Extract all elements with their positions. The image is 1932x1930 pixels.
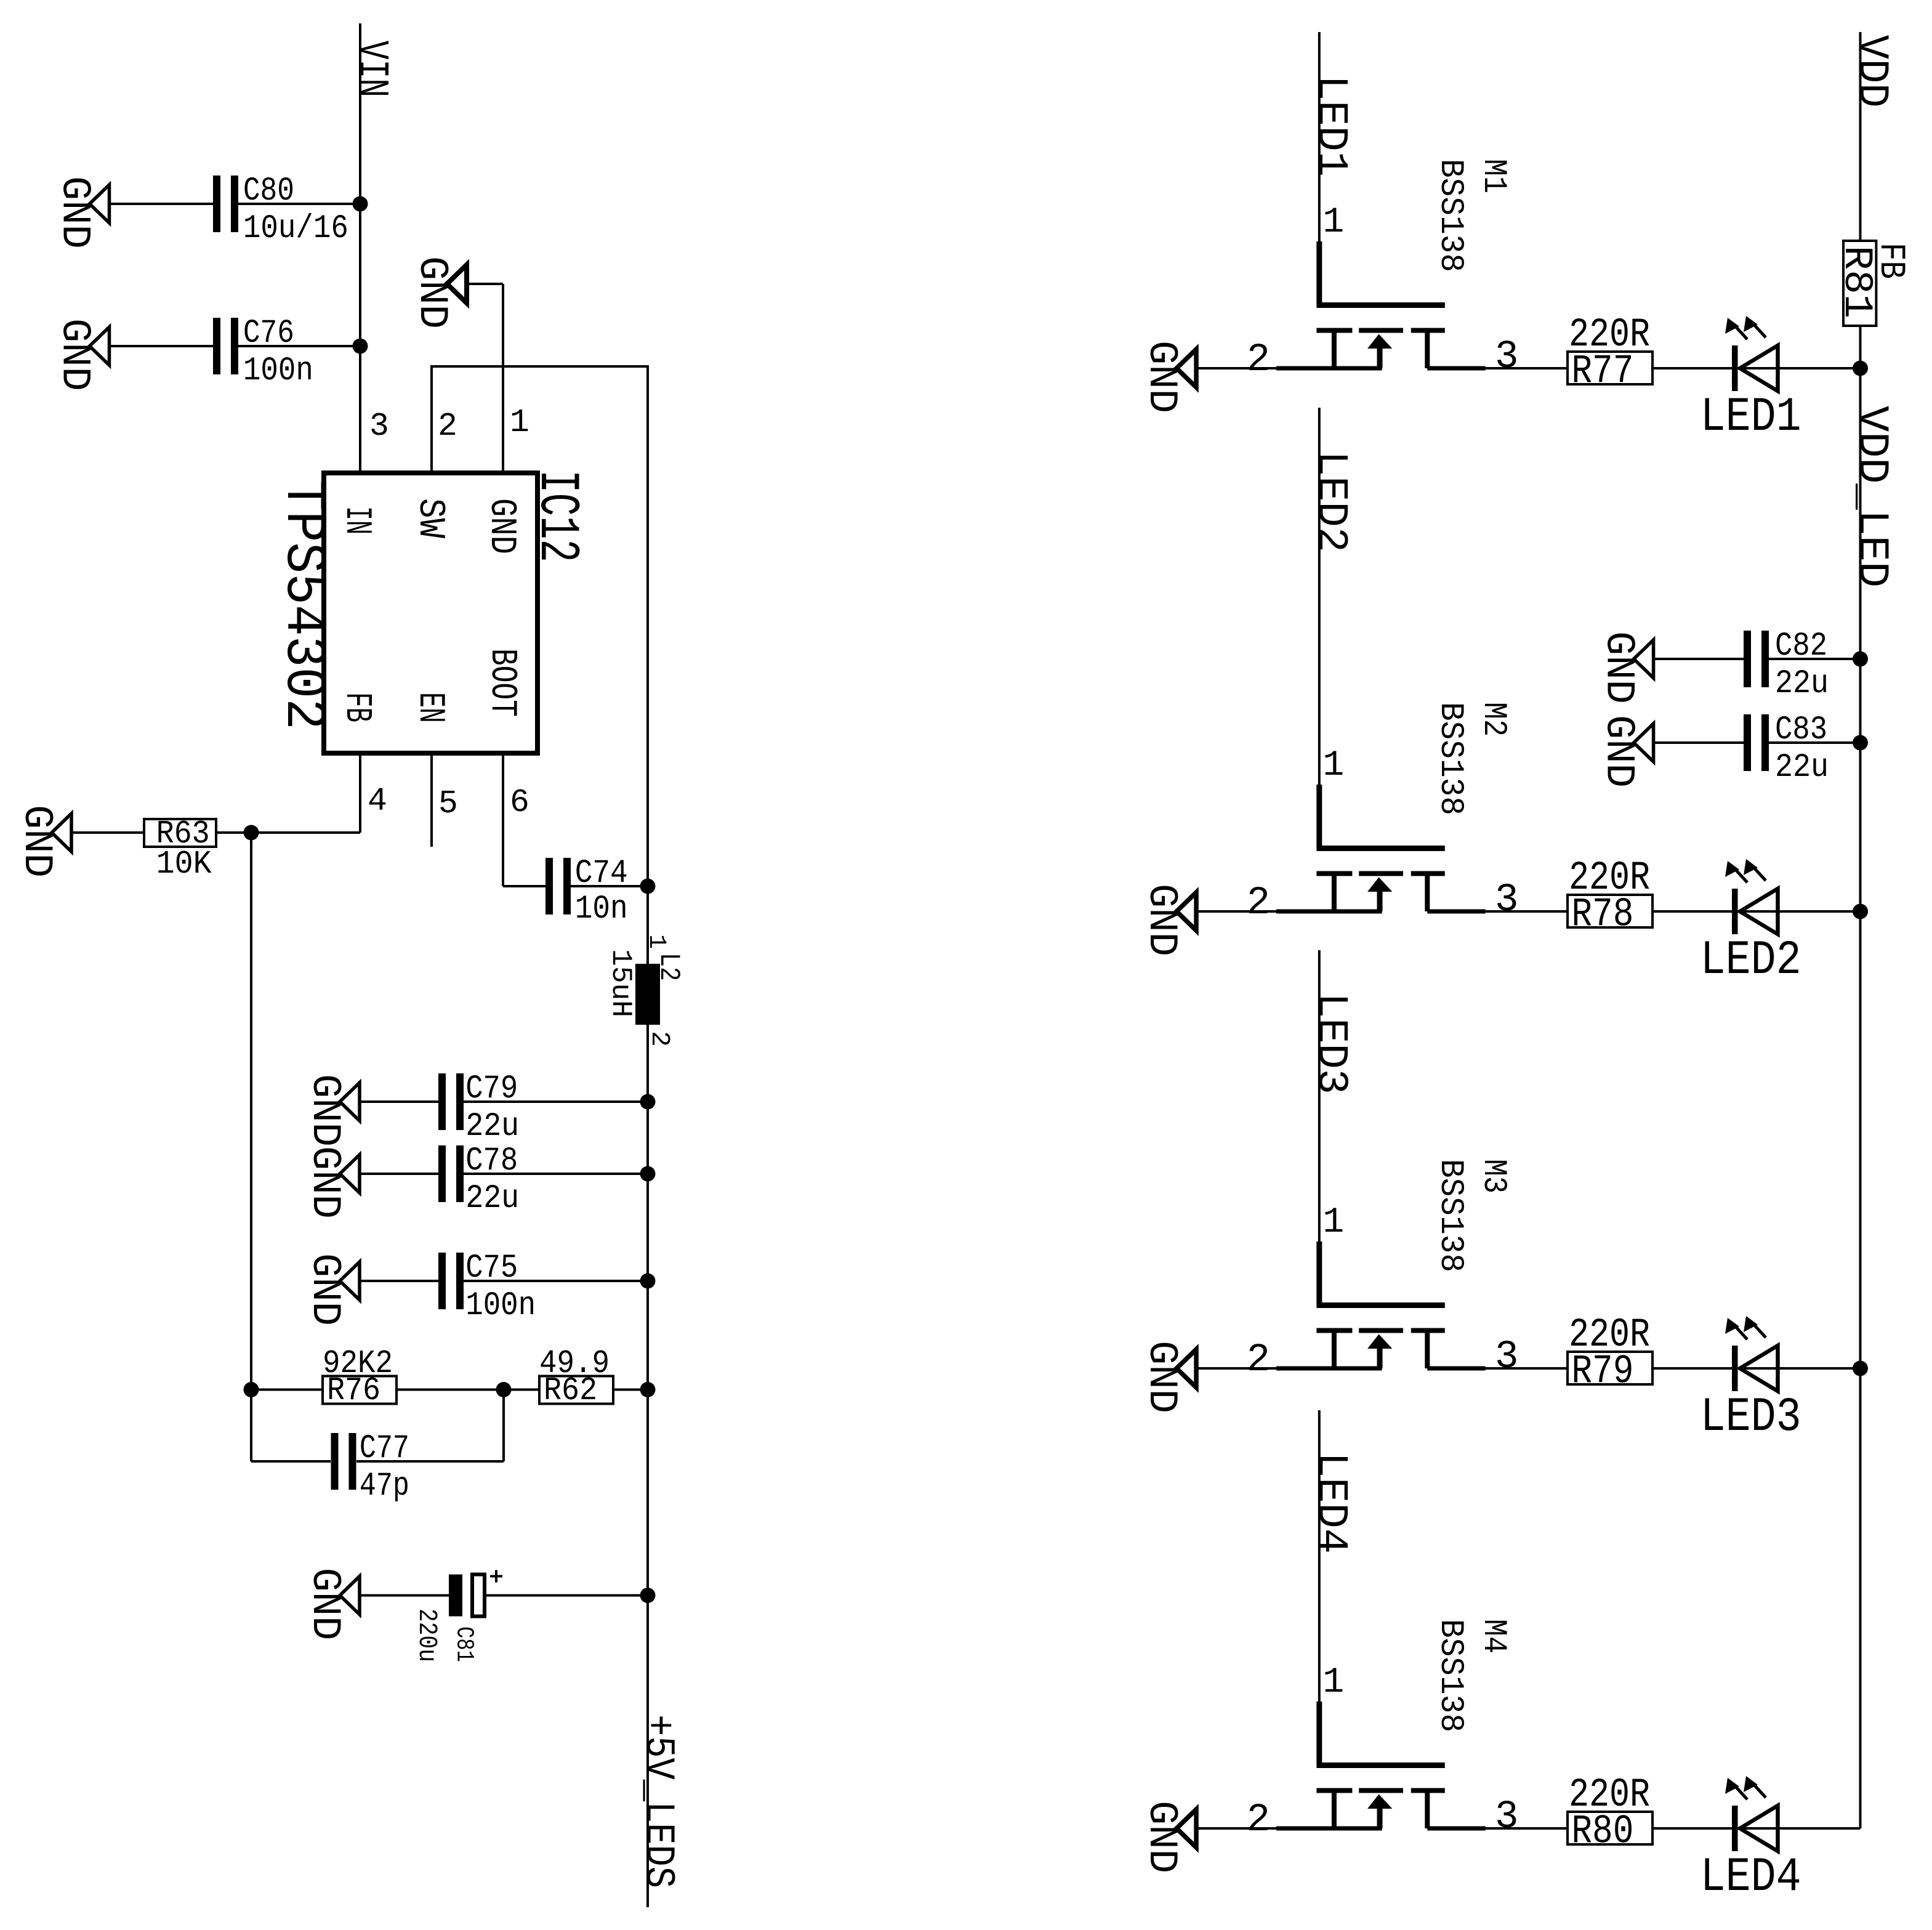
svg-text:VDD: VDD — [1847, 35, 1896, 108]
svg-text:GND: GND — [14, 805, 60, 878]
svg-text:GND: GND — [1138, 1801, 1185, 1873]
svg-text:LED2: LED2 — [1306, 451, 1354, 552]
svg-text:GND: GND — [1138, 341, 1185, 413]
wire SW node — [430, 365, 433, 473]
wire pin6 BOOT stub — [502, 753, 504, 886]
svg-text:GND: GND — [302, 1146, 348, 1219]
junction — [1853, 1361, 1868, 1376]
pin 5 EN — [409, 692, 458, 822]
svg-text:2: 2 — [1247, 338, 1270, 382]
resistor R76 92K2 — [323, 1345, 396, 1409]
wire — [1654, 741, 1744, 744]
capacitor C78 22u — [438, 1142, 519, 1217]
capacitor C80 — [213, 172, 348, 248]
svg-text:15uH: 15uH — [605, 949, 637, 1017]
svg-text:GND: GND — [1138, 884, 1185, 956]
svg-text:M2: M2 — [1475, 702, 1512, 737]
svg-text:BSS138: BSS138 — [1431, 1619, 1469, 1732]
svg-text:GND: GND — [480, 498, 522, 554]
inductor L2 15uH — [605, 934, 685, 1047]
pin 6 BOOT — [481, 648, 529, 821]
wire — [216, 831, 360, 834]
wire — [1196, 1367, 1276, 1370]
transistor M4 BSS138 — [1247, 1619, 1519, 1843]
wire — [464, 1173, 648, 1175]
svg-text:3: 3 — [1495, 1335, 1518, 1379]
ground C75 GND — [302, 1253, 360, 1326]
svg-text:1: 1 — [510, 404, 529, 441]
resistor R63 10K — [144, 815, 216, 882]
wire — [360, 1100, 438, 1103]
svg-text:LED1: LED1 — [1701, 390, 1801, 445]
wire — [360, 1594, 449, 1597]
wire +5V rail — [646, 1025, 649, 1907]
svg-text:C81: C81 — [450, 1626, 478, 1662]
svg-text:5: 5 — [438, 785, 458, 822]
svg-text:2: 2 — [1247, 881, 1270, 926]
ground C79 GND — [302, 1074, 360, 1147]
LED LED3 — [1701, 1316, 1801, 1445]
capacitor C83 22u — [1744, 711, 1829, 786]
svg-text:+5V_LEDS: +5V_LEDS — [634, 1714, 681, 1888]
capacitor C76 — [213, 315, 313, 390]
svg-text:22u: 22u — [465, 1180, 519, 1217]
wire FB vertical — [250, 833, 252, 1461]
svg-text:IN: IN — [336, 506, 377, 535]
svg-text:2: 2 — [645, 1031, 675, 1047]
svg-text:GND: GND — [302, 1253, 348, 1326]
svg-text:GND: GND — [1596, 631, 1642, 704]
junction — [1853, 735, 1868, 751]
LED LED1 — [1701, 316, 1801, 445]
wire — [613, 1389, 648, 1391]
svg-text:L2: L2 — [653, 953, 685, 981]
junction — [1853, 904, 1868, 919]
wire — [1196, 910, 1276, 913]
wire — [396, 1389, 539, 1391]
junction — [640, 1382, 656, 1397]
resistor R81 FB — [1833, 241, 1910, 326]
svg-text:10K: 10K — [156, 846, 212, 882]
svg-text:LED2: LED2 — [1701, 934, 1801, 988]
ground C78 GND — [302, 1146, 360, 1219]
ground M3 source GND — [1138, 1341, 1196, 1413]
svg-text:EN: EN — [409, 692, 451, 723]
node LED4 gate net — [1306, 1410, 1354, 1702]
capacitor C81 220u polarized — [412, 1570, 502, 1663]
wire — [360, 1173, 438, 1175]
ground C76 GND — [52, 318, 110, 391]
svg-text:22u: 22u — [1775, 665, 1829, 703]
wire — [238, 345, 360, 347]
svg-text:22u: 22u — [465, 1108, 519, 1145]
junction — [640, 879, 656, 894]
svg-text:220u: 220u — [412, 1609, 442, 1662]
svg-text:LED3: LED3 — [1306, 993, 1354, 1094]
svg-text:GND: GND — [1138, 1341, 1185, 1413]
capacitor C77 47p — [331, 1430, 409, 1505]
svg-text:VDD_LED: VDD_LED — [1847, 406, 1896, 587]
node VDD — [1847, 32, 1896, 241]
svg-text:FB: FB — [336, 692, 377, 722]
junction — [1853, 361, 1868, 376]
svg-text:1: 1 — [1322, 203, 1344, 243]
svg-text:100n: 100n — [243, 352, 313, 390]
svg-text:M4: M4 — [1475, 1619, 1512, 1653]
resistor R77 220R — [1568, 312, 1652, 395]
svg-text:LED4: LED4 — [1701, 1851, 1801, 1905]
resistor R80 220R — [1568, 1772, 1652, 1855]
pin 2 SW — [409, 408, 457, 538]
pin 1 GND — [480, 404, 529, 554]
svg-text:47p: 47p — [360, 1468, 409, 1505]
wire VDD_LED rail — [1859, 326, 1862, 1828]
node LED1 gate net — [1306, 32, 1354, 241]
svg-text:10u/16: 10u/16 — [243, 210, 348, 248]
wire — [464, 1280, 648, 1282]
wire — [1486, 367, 1568, 369]
svg-text:GND: GND — [409, 256, 455, 329]
svg-text:2: 2 — [438, 408, 457, 445]
junction — [353, 196, 368, 212]
svg-text:GND: GND — [1596, 715, 1642, 788]
svg-text:TPS54302: TPS54302 — [271, 480, 336, 730]
wire — [1769, 658, 1861, 660]
capacitor C74 10n — [545, 855, 628, 928]
svg-text:BSS138: BSS138 — [1431, 702, 1469, 815]
wire pin4 stub — [359, 753, 361, 833]
svg-text:3: 3 — [1495, 878, 1518, 923]
LED LED4 — [1701, 1776, 1801, 1905]
wire — [464, 1100, 648, 1103]
svg-text:LED4: LED4 — [1306, 1452, 1354, 1554]
svg-text:6: 6 — [510, 784, 529, 821]
svg-text:GND: GND — [52, 318, 98, 391]
wire — [485, 1594, 648, 1597]
node LED2 gate net — [1306, 408, 1354, 785]
svg-text:1: 1 — [1322, 1203, 1344, 1243]
svg-text:1: 1 — [1322, 746, 1344, 786]
IC IC12 TPS54302 — [271, 470, 589, 753]
ground M4 source GND — [1138, 1801, 1196, 1873]
junction — [244, 1382, 259, 1397]
svg-text:GND: GND — [52, 176, 98, 249]
wire — [1778, 367, 1861, 369]
resistor R79 220R — [1568, 1312, 1652, 1395]
wire — [71, 831, 144, 834]
ground IC12 pin1 GND — [409, 256, 467, 329]
transistor M3 BSS138 — [1247, 1159, 1519, 1383]
pin 4 FB — [336, 692, 387, 820]
wire — [570, 885, 648, 887]
svg-text:LED3: LED3 — [1701, 1391, 1801, 1445]
junction — [353, 339, 368, 354]
svg-text:R76: R76 — [327, 1372, 380, 1409]
wire — [1486, 910, 1568, 913]
junction — [640, 1094, 656, 1110]
wire pin5 EN stub — [430, 753, 433, 847]
transistor M1 BSS138 — [1247, 159, 1519, 382]
wire — [110, 345, 214, 347]
wire — [1654, 658, 1744, 660]
svg-text:BSS138: BSS138 — [1431, 159, 1469, 272]
svg-text:R79: R79 — [1571, 1349, 1633, 1395]
pin 3 IN — [336, 408, 389, 535]
junction — [640, 1166, 656, 1182]
svg-text:GND: GND — [302, 1074, 348, 1147]
capacitor C82 22u — [1744, 628, 1829, 703]
wire — [1652, 1827, 1732, 1830]
wire — [1652, 367, 1732, 369]
wire — [1652, 910, 1732, 913]
svg-text:3: 3 — [369, 408, 389, 445]
wire — [1778, 1367, 1861, 1370]
capacitor C79 22u — [438, 1070, 519, 1145]
wire — [1778, 1827, 1861, 1830]
svg-text:1: 1 — [1322, 1663, 1344, 1703]
capacitor C75 100n — [438, 1250, 536, 1325]
wire — [467, 283, 503, 285]
wire — [1196, 367, 1276, 369]
svg-text:2: 2 — [1247, 1338, 1270, 1383]
ground C82 GND — [1596, 631, 1654, 704]
node VIN — [347, 23, 395, 473]
svg-text:R77: R77 — [1571, 349, 1633, 395]
node LED3 gate net — [1306, 950, 1354, 1242]
svg-text:100n: 100n — [465, 1287, 536, 1325]
ground C81 GND — [302, 1568, 360, 1641]
svg-text:22u: 22u — [1775, 749, 1829, 786]
junction — [496, 1382, 512, 1397]
junction — [1853, 652, 1868, 667]
junction node FB — [244, 825, 259, 841]
svg-text:R78: R78 — [1571, 892, 1633, 938]
wire — [503, 885, 545, 887]
wire — [110, 203, 214, 205]
wire — [356, 1460, 504, 1463]
wire — [1486, 1367, 1568, 1370]
svg-text:R62: R62 — [544, 1372, 597, 1409]
svg-text:M3: M3 — [1475, 1159, 1512, 1193]
svg-text:2: 2 — [1247, 1798, 1270, 1843]
svg-text:IC12: IC12 — [525, 470, 589, 562]
transistor M2 BSS138 — [1247, 702, 1519, 926]
wire — [251, 1389, 323, 1391]
ground C80 GND — [52, 176, 110, 249]
svg-text:SW: SW — [409, 498, 451, 538]
svg-text:BSS138: BSS138 — [1431, 1159, 1469, 1272]
wire — [1196, 1827, 1276, 1830]
svg-text:LED1: LED1 — [1306, 75, 1354, 177]
junction — [640, 1588, 656, 1603]
svg-text:VIN: VIN — [347, 41, 395, 97]
svg-text:FB: FB — [1870, 243, 1910, 279]
svg-text:1: 1 — [642, 934, 670, 949]
wire — [1769, 741, 1861, 744]
wire — [1486, 1827, 1568, 1830]
wire — [1778, 910, 1861, 913]
svg-text:R80: R80 — [1571, 1809, 1633, 1855]
svg-text:3: 3 — [1495, 335, 1518, 379]
svg-text:10n: 10n — [575, 890, 628, 928]
wire — [238, 203, 360, 205]
ground M1 source GND — [1138, 341, 1196, 413]
svg-text:BOOT: BOOT — [481, 648, 523, 717]
svg-text:3: 3 — [1495, 1795, 1518, 1839]
wire — [360, 1280, 438, 1282]
ground C83 GND — [1596, 715, 1654, 788]
svg-text:GND: GND — [302, 1568, 348, 1641]
LED LED2 — [1701, 859, 1801, 988]
resistor R78 220R — [1568, 855, 1652, 938]
wire — [1652, 1367, 1732, 1370]
wire — [251, 1460, 331, 1463]
svg-text:4: 4 — [368, 783, 387, 820]
svg-text:M1: M1 — [1475, 159, 1512, 193]
junction — [640, 1274, 656, 1289]
resistor R62 49.9 — [539, 1345, 613, 1409]
ground M2 source GND — [1138, 884, 1196, 956]
ground R63 GND — [14, 805, 71, 878]
